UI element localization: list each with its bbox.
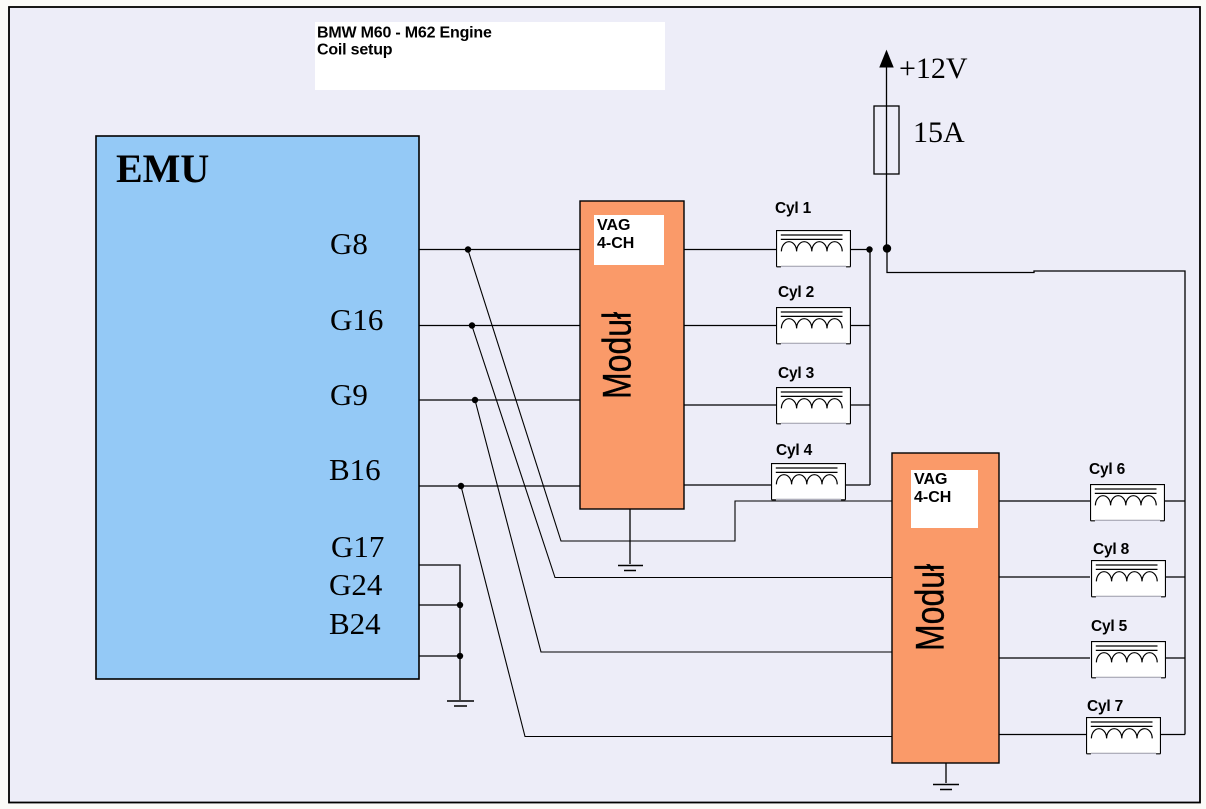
wire module1 out4 to Cyl4 [684,484,771,486]
wire module1 out3 to Cyl3 [684,404,776,406]
wire G24 stub [419,604,460,606]
wire Cyl6 to right rail [1165,500,1185,502]
wire G16 EMU to module1 [419,325,580,327]
ground module U3 [945,763,947,783]
wire 12V to right rail [887,249,1185,735]
node 12V junction [883,244,891,252]
node B16 junction [458,483,464,489]
svg-text:G16: G16 [330,302,383,337]
wire module1 out2 to Cyl2 [684,325,776,327]
module U3 VAG 4-CH [892,453,999,763]
svg-text:15A: 15A [913,116,965,149]
svg-text:4-CH: 4-CH [597,235,634,252]
svg-text:Cyl 3: Cyl 3 [778,365,815,382]
node B24 junction [457,653,463,659]
svg-text:G17: G17 [331,529,384,564]
wire module2 out4 to Cyl7 [999,734,1086,736]
wire diagonal G8 to module2 ch1 [468,250,892,541]
svg-text:VAG: VAG [597,217,630,234]
module U2 VAG 4-CH [580,201,684,509]
svg-text:Moduł: Moduł [907,564,952,651]
wire G8 EMU to module1 [419,249,580,251]
EMU box U1 [96,136,419,679]
svg-text:Cyl 4: Cyl 4 [776,442,813,459]
svg-text:Moduł: Moduł [594,312,639,399]
svg-text:Cyl 1: Cyl 1 [775,200,812,217]
wire diagonal G16 to module2 ch2 [472,326,892,578]
title box [315,22,665,90]
svg-text:G8: G8 [330,226,368,261]
svg-text:Cyl 7: Cyl 7 [1087,698,1123,715]
ground EMU [447,701,474,706]
node G24 junction [457,602,463,608]
power +12V arrow [880,51,893,67]
svg-text:B16: B16 [329,452,381,487]
wire B16 EMU to module1 [419,485,580,487]
svg-text:4-CH: 4-CH [914,489,951,506]
wire B24 stub [419,655,460,657]
svg-text:+12V: +12V [899,52,968,85]
fuse F1 [874,106,899,174]
svg-text:VAG: VAG [914,471,947,488]
wire module2 out1 to Cyl6 [999,500,1090,502]
wire 12V feed [886,60,888,249]
wire Cyl8 to right rail [1166,576,1185,578]
wire Cyl2 to supply rail [851,325,870,327]
svg-text:G9: G9 [330,377,368,412]
wire Cyl4 to supply rail [845,484,870,486]
svg-text:Cyl 2: Cyl 2 [778,284,814,301]
svg-text:G24: G24 [329,567,383,602]
wire module2 out2 to Cyl8 [999,576,1090,578]
svg-text:BMW M60 - M62 Engine: BMW M60 - M62 Engine [317,25,492,42]
wire Cyl7 to right rail [1161,734,1185,736]
node rail junction [866,246,872,252]
node G9 junction [472,397,478,403]
wire diagonal B16 to module2 ch4 [461,486,892,737]
svg-text:B24: B24 [329,606,381,641]
wire Cyl3 to supply rail [851,404,870,406]
svg-text:Cyl 5: Cyl 5 [1091,618,1128,635]
svg-text:Coil setup: Coil setup [317,42,393,59]
wire supply rail coils 1-4 [869,250,871,486]
wire Cyl5 to right rail [1166,657,1185,659]
svg-text:EMU: EMU [116,146,209,191]
wire module2 out3 to Cyl5 [999,657,1090,659]
ground module U2 [629,509,631,564]
wire G17 stub [419,565,460,700]
wire diagonal G9 to module2 ch3 [475,400,892,652]
svg-text:Cyl 6: Cyl 6 [1089,461,1126,478]
svg-text:Cyl 8: Cyl 8 [1093,541,1130,558]
wire G9 EMU to module1 [419,399,580,401]
wire Cyl1 to supply rail [851,249,870,251]
wire module1 out1 to Cyl1 [684,249,776,251]
node G8 junction [465,246,471,252]
node G16 junction [469,322,475,328]
